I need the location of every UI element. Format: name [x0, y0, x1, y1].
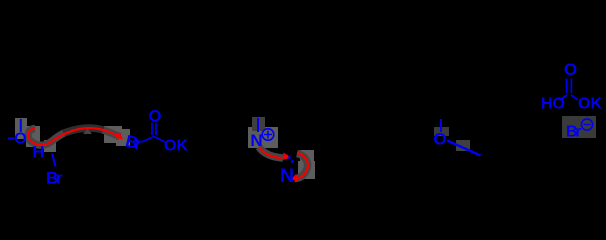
svg-text:O: O: [433, 130, 446, 149]
svg-text:Br: Br: [46, 169, 63, 185]
svg-text:O: O: [14, 131, 26, 148]
svg-text:O: O: [149, 108, 162, 126]
svg-text:N: N: [250, 131, 262, 150]
svg-text:N: N: [280, 165, 294, 184]
svg-text:HO: HO: [541, 96, 565, 113]
svg-text:O: O: [564, 60, 577, 79]
svg-text:OK: OK: [164, 138, 188, 155]
svg-text:Br: Br: [124, 131, 144, 153]
svg-text:OK: OK: [578, 96, 602, 113]
svg-text:Br: Br: [566, 124, 582, 141]
